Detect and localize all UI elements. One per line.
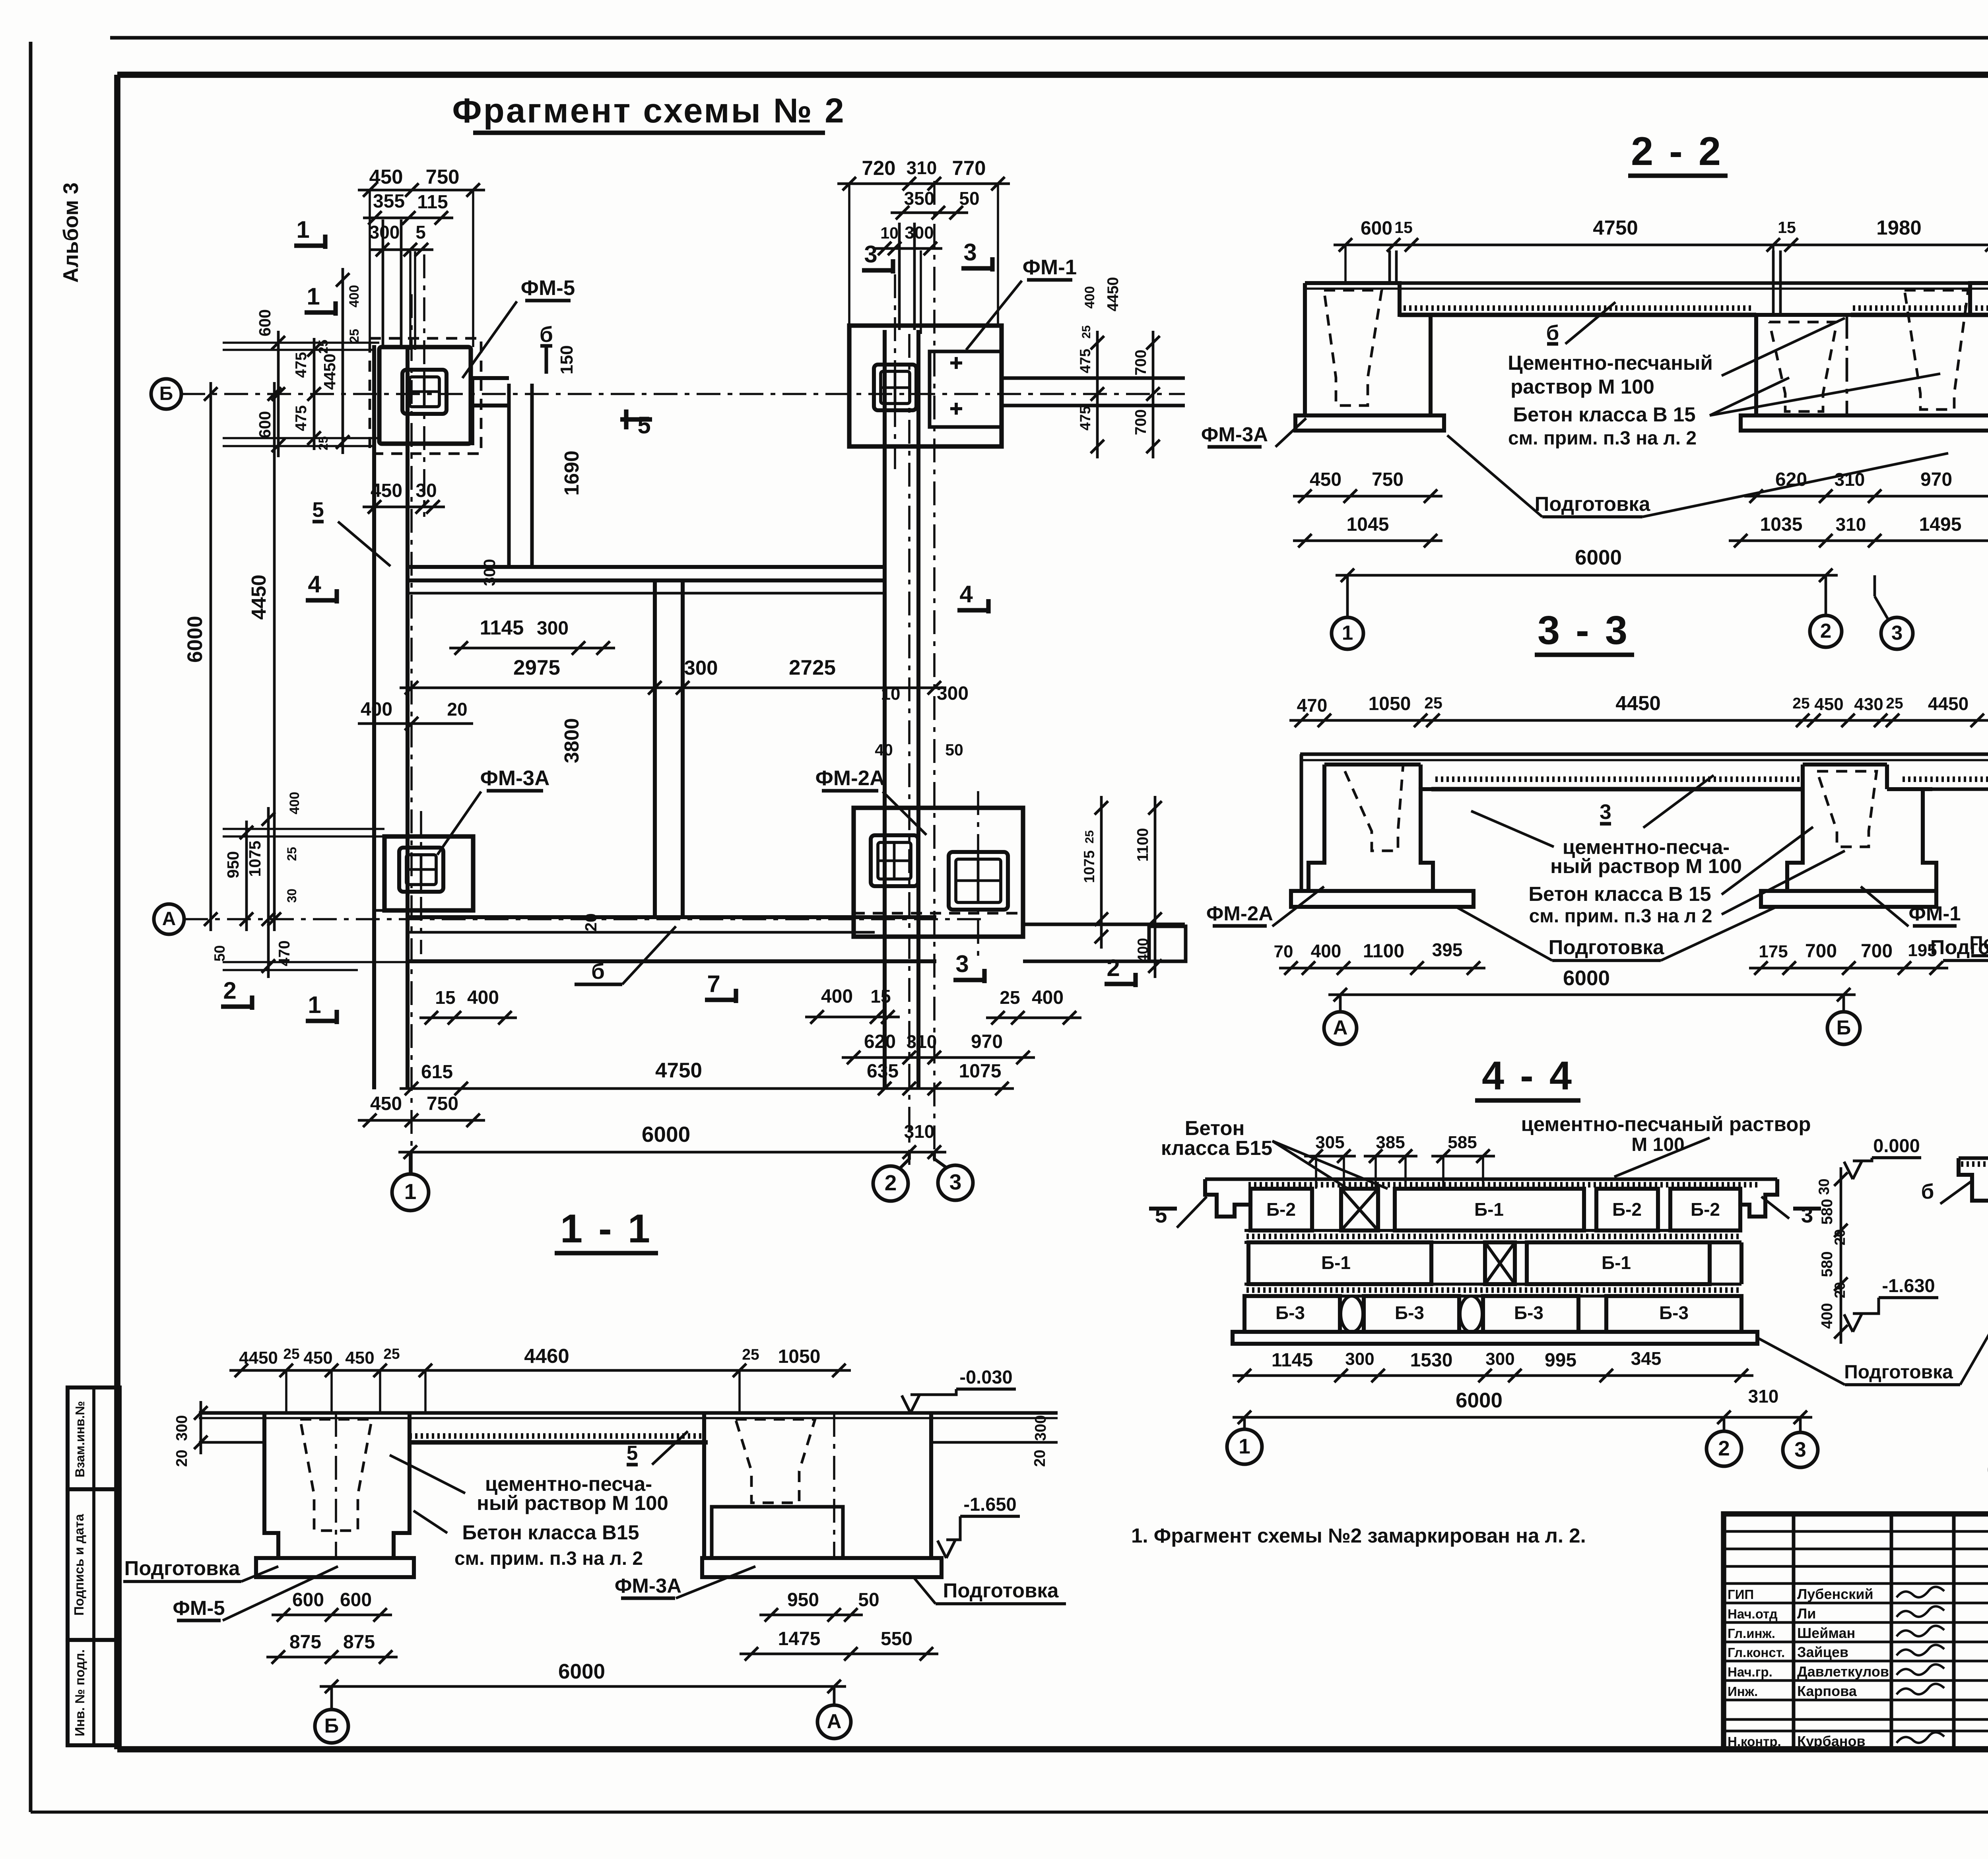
svg-text:400: 400 [467, 987, 499, 1008]
svg-text:Инж.: Инж. [1728, 1684, 1758, 1699]
svg-text:3: 3 [1801, 1203, 1813, 1227]
album label Albom 3 [59, 182, 83, 283]
svg-text:4750: 4750 [1593, 216, 1638, 239]
svg-text:70: 70 [1274, 942, 1293, 961]
svg-text:300: 300 [173, 1415, 190, 1441]
svg-text:1475: 1475 [778, 1628, 821, 1649]
plan: axis 2 vertical [908, 334, 911, 1165]
plan: foundation centerlines [421, 254, 978, 962]
svg-text:4450: 4450 [247, 574, 270, 619]
svg-text:300: 300 [1032, 1415, 1049, 1441]
2-2 axis circles 1 2 3 [1332, 575, 1913, 649]
svg-text:Б-3: Б-3 [1659, 1302, 1689, 1323]
plan: label FM-3A [437, 766, 549, 855]
svg-text:Подготовка: Подготовка [943, 1579, 1059, 1602]
svg-text:475: 475 [1077, 349, 1093, 373]
svg-text:А: А [1333, 1016, 1348, 1039]
svg-text:750: 750 [1372, 469, 1404, 490]
svg-text:Подготовка: Подготовка [1535, 493, 1650, 515]
4-4 axis circles 1 2 3 [1227, 1417, 1818, 1467]
svg-text:1050: 1050 [778, 1346, 821, 1367]
3-3 dims bottom right [1749, 941, 1948, 975]
svg-text:Б: Б [159, 383, 173, 404]
1-1 floor lines [199, 1370, 1058, 1442]
svg-text:4 - 4: 4 - 4 [1482, 1054, 1574, 1098]
svg-text:700: 700 [1132, 409, 1149, 435]
2-2 left slab [1295, 415, 1444, 431]
plan flag 5 right [560, 409, 652, 496]
1-1 label 5 [627, 1431, 688, 1465]
3-3 label beton [1528, 827, 1845, 927]
svg-text:635: 635 [867, 1061, 899, 1082]
plan bottom dim 620/310/970 [842, 1031, 1035, 1064]
svg-text:Гл.инж.: Гл.инж. [1728, 1626, 1775, 1641]
plan: duct lines near FM-5 [473, 378, 532, 568]
svg-text:ГИП: ГИП [1728, 1587, 1754, 1602]
svg-text:1075: 1075 [1081, 850, 1097, 883]
plan: axis circle 3 [934, 1152, 973, 1200]
1-1 axis circle B [315, 1686, 348, 1743]
4-4 label beton left [1161, 1117, 1388, 1189]
svg-text:350: 350 [904, 188, 935, 209]
3-3 label 3 [1600, 775, 1714, 828]
plan: left extension lines B [223, 343, 379, 446]
svg-text:0.000: 0.000 [1873, 1135, 1920, 1156]
svg-text:Инв. № подл.: Инв. № подл. [72, 1649, 87, 1737]
svg-text:4450: 4450 [1928, 693, 1969, 714]
svg-text:3: 3 [949, 1170, 962, 1194]
svg-text:6000: 6000 [1456, 1389, 1503, 1412]
svg-text:3: 3 [963, 239, 977, 266]
svg-text:ный раствор М 100: ный раствор М 100 [477, 1492, 668, 1514]
plan label 5 beam [312, 498, 390, 566]
svg-text:15: 15 [1778, 218, 1796, 237]
svg-text:30: 30 [1816, 1178, 1832, 1195]
svg-text:305: 305 [1315, 1133, 1344, 1152]
svg-text:450: 450 [370, 1093, 402, 1114]
svg-text:5: 5 [637, 412, 650, 439]
2-2 label b [1546, 302, 1615, 345]
3-3 axis circles A B [1324, 995, 1860, 1044]
svg-text:3: 3 [864, 241, 877, 268]
3-3 dims bottom left [1274, 939, 1485, 975]
svg-text:1035: 1035 [1760, 514, 1803, 535]
svg-text:6000: 6000 [183, 616, 207, 663]
plan: label FM-1 [966, 256, 1077, 350]
svg-text:Подготовка: Подготовка [1844, 1362, 1953, 1383]
svg-text:1690: 1690 [560, 450, 583, 495]
svg-text:2: 2 [885, 1170, 897, 1195]
svg-text:см. прим. п.3 на л. 2: см. прим. п.3 на л. 2 [1508, 428, 1697, 449]
svg-text:4: 4 [959, 581, 973, 607]
svg-text:Б-2: Б-2 [1612, 1199, 1642, 1220]
svg-text:1: 1 [296, 216, 309, 243]
svg-text:2 - 2: 2 - 2 [1631, 129, 1723, 174]
svg-text:Гл.конст.: Гл.конст. [1728, 1645, 1785, 1660]
svg-text:А: А [827, 1710, 842, 1733]
svg-text:300: 300 [480, 559, 499, 586]
title block names [1728, 1586, 1889, 1749]
svg-text:25: 25 [742, 1346, 759, 1363]
svg-text:Бетон: Бетон [1185, 1117, 1245, 1139]
svg-text:А: А [162, 908, 176, 929]
svg-text:3: 3 [1600, 800, 1611, 824]
plan: right wall axis 2-3 [885, 330, 918, 1087]
section 4-4 title [1475, 1054, 1580, 1100]
2-2 dim 6000 [1336, 546, 1838, 582]
svg-text:Подготовка: Подготовка [1969, 933, 1988, 954]
plan dim 300/5 [369, 222, 433, 256]
plan left dim 4450 vertical [247, 382, 281, 931]
plan bottom dim 450/750 [358, 1093, 485, 1127]
4-4 flag 5 left [1149, 1197, 1207, 1228]
2-2 dim 450/750 [1293, 469, 1442, 503]
svg-text:400: 400 [1082, 286, 1097, 309]
svg-text:450: 450 [1310, 469, 1342, 490]
1-1 left slab [256, 1558, 414, 1577]
3-3 right slab [1761, 891, 1936, 907]
svg-text:раствор М 100: раствор М 100 [1510, 375, 1654, 398]
plan section flags 4 [306, 571, 988, 613]
svg-text:580: 580 [1819, 1199, 1836, 1224]
plan dim 400/20 mid [358, 699, 473, 730]
4-4 mortar band1 [1244, 1230, 1741, 1242]
svg-text:ФМ-5: ФМ-5 [173, 1597, 225, 1619]
plan: label FM-2A [815, 766, 926, 835]
1-1 label podgotovka right [914, 1578, 1066, 1604]
svg-text:3 - 3: 3 - 3 [1538, 608, 1630, 653]
3-3 left foundation [1301, 754, 1433, 891]
plan: column lines above FM-5 [383, 219, 415, 350]
svg-text:1050: 1050 [1369, 693, 1411, 714]
svg-text:ФМ-3А: ФМ-3А [615, 1574, 681, 1597]
svg-text:430: 430 [1854, 695, 1883, 714]
section 1-1 title [555, 1207, 658, 1253]
svg-text:1145: 1145 [480, 616, 524, 639]
plan bottom dim 6000/310 [398, 1121, 946, 1159]
svg-text:40: 40 [875, 741, 893, 759]
svg-text:б: б [591, 959, 605, 984]
svg-text:770: 770 [952, 157, 986, 179]
svg-text:1980: 1980 [1876, 216, 1921, 239]
plan: axis circle 1 [392, 1152, 429, 1211]
svg-text:1. Фрагмент схемы №2 замаркиро: 1. Фрагмент схемы №2 замаркирован на л. … [1131, 1524, 1586, 1547]
7-7 flag b left [1921, 1180, 1972, 1204]
svg-text:1075: 1075 [246, 840, 264, 877]
svg-text:4450: 4450 [320, 353, 339, 390]
1-1 right slab [702, 1558, 942, 1577]
svg-text:400: 400 [1819, 1303, 1836, 1329]
1-1 label podgotovka left [123, 1557, 278, 1582]
svg-text:ФМ-1: ФМ-1 [1908, 902, 1961, 925]
svg-text:30: 30 [285, 889, 299, 903]
svg-text:580: 580 [1819, 1251, 1836, 1277]
svg-text:1530: 1530 [1410, 1350, 1453, 1371]
plan: axis A horizontal [154, 904, 982, 934]
svg-text:150: 150 [557, 345, 577, 374]
svg-text:Б-3: Б-3 [1395, 1302, 1424, 1323]
svg-text:475: 475 [293, 405, 310, 431]
svg-text:25: 25 [283, 1346, 299, 1362]
svg-text:15: 15 [435, 987, 455, 1008]
sidebar box Podpis i data [68, 1489, 120, 1640]
svg-text:950: 950 [224, 851, 242, 878]
svg-text:1075: 1075 [959, 1061, 1002, 1082]
svg-text:20: 20 [582, 913, 600, 931]
svg-text:Цементно-песчаный: Цементно-песчаный [1508, 351, 1713, 374]
svg-text:1100: 1100 [1134, 828, 1151, 862]
3-3 top dims [1289, 692, 1988, 727]
svg-text:2975: 2975 [513, 656, 560, 679]
4-4 row2 blocks [1248, 1242, 1741, 1284]
2-2 floor line [1305, 283, 1988, 315]
section 3-3 title [1535, 608, 1634, 655]
plan: column lines above FM-1 [899, 223, 921, 334]
plan dim 450/750 top [358, 165, 485, 347]
plan dim 720/310/770 [837, 157, 1010, 326]
2-2 label beton [1508, 374, 1940, 449]
svg-text:50: 50 [858, 1589, 879, 1611]
3-3 label FM-1 [1861, 887, 1961, 926]
svg-text:Давлеткулов: Давлеткулов [1797, 1663, 1889, 1680]
plan: beam stub right of FM-1 [1002, 378, 1185, 406]
svg-text:6000: 6000 [642, 1122, 690, 1147]
svg-text:700: 700 [1861, 941, 1893, 962]
4-4 bottom dims [1233, 1348, 1753, 1382]
4-4 flag 3 right [1761, 1197, 1821, 1227]
svg-text:20: 20 [447, 699, 467, 720]
svg-text:475: 475 [293, 352, 310, 378]
svg-text:Б-1: Б-1 [1321, 1252, 1351, 1273]
svg-text:Б: Б [324, 1714, 339, 1737]
svg-text:615: 615 [421, 1061, 453, 1083]
svg-text:600: 600 [1361, 218, 1392, 239]
plan: foundation FM-1 [849, 326, 1002, 446]
1-1 label FM-5 [173, 1566, 338, 1620]
plan dim 450/30 bottom of FM-5 [363, 480, 445, 514]
svg-text:Б-2: Б-2 [1266, 1199, 1296, 1220]
svg-text:600: 600 [292, 1589, 324, 1611]
svg-text:Нач.гр.: Нач.гр. [1728, 1665, 1773, 1679]
sidebar box Inv N podl [68, 1640, 120, 1745]
svg-text:Лубенский: Лубенский [1797, 1586, 1873, 1602]
plan dim 355/115 [363, 191, 453, 225]
plan rotated 3800 [480, 559, 600, 931]
plan: axis B horizontal [151, 379, 1185, 409]
svg-text:класса Б15: класса Б15 [1161, 1137, 1272, 1159]
svg-text:25: 25 [1424, 694, 1442, 712]
4-4 bottom slab [1233, 1332, 1757, 1344]
svg-text:25: 25 [285, 847, 299, 861]
svg-text:4450: 4450 [1105, 277, 1122, 312]
svg-text:25: 25 [383, 1346, 400, 1362]
svg-text:6000: 6000 [1575, 546, 1622, 569]
svg-text:450: 450 [303, 1348, 332, 1368]
svg-text:1045: 1045 [1347, 514, 1389, 535]
svg-text:875: 875 [289, 1632, 321, 1653]
svg-text:300: 300 [684, 656, 718, 679]
2-2 dim 620/310/970 [1744, 469, 1988, 503]
plan: upper cross beam [408, 567, 885, 593]
4-4 label cement mortar right [1521, 1113, 1811, 1177]
svg-text:3: 3 [1891, 621, 1903, 644]
svg-text:310: 310 [1835, 469, 1865, 490]
1-1 dim 6000 [320, 1660, 846, 1693]
1-1 left small dims 20/300 [173, 1401, 208, 1467]
svg-text:1145: 1145 [1272, 1350, 1313, 1371]
svg-text:550: 550 [881, 1628, 912, 1649]
svg-text:1495: 1495 [1919, 514, 1962, 535]
svg-text:450: 450 [1814, 695, 1843, 714]
svg-text:7: 7 [707, 970, 720, 997]
svg-text:2: 2 [1718, 1437, 1730, 1460]
svg-text:Нач.отд: Нач.отд [1728, 1607, 1778, 1621]
svg-text:10: 10 [880, 224, 899, 242]
2-2 middle slab [1741, 415, 1988, 431]
svg-text:50: 50 [212, 945, 228, 961]
svg-text:2725: 2725 [789, 656, 836, 679]
svg-text:4750: 4750 [655, 1059, 702, 1082]
svg-text:700: 700 [1805, 941, 1837, 962]
plan bottom flags 2,1,b,7,3,2 [221, 926, 1136, 1024]
svg-text:ФМ-3А: ФМ-3А [480, 766, 550, 790]
sidebar box Vzam inv N [68, 1387, 120, 1489]
svg-text:300: 300 [937, 683, 969, 704]
svg-text:ФМ-2А: ФМ-2А [815, 766, 885, 790]
svg-text:175: 175 [1759, 942, 1788, 961]
plan: beam stub right of FM-2A [1023, 924, 1186, 961]
svg-text:310: 310 [907, 157, 937, 178]
1-1 top dims [229, 1345, 851, 1377]
svg-text:50: 50 [945, 741, 963, 759]
4-4 top small dims 305/385/585 [1304, 1133, 1495, 1189]
svg-text:25: 25 [1080, 325, 1093, 338]
svg-text:Курбанов: Курбанов [1797, 1733, 1866, 1749]
svg-text:310: 310 [1836, 514, 1866, 535]
plan flag b + 150 [540, 322, 577, 375]
section 2-2 title [1628, 129, 1728, 176]
svg-text:4460: 4460 [524, 1345, 569, 1367]
svg-text:5: 5 [415, 222, 426, 243]
svg-text:Б-3: Б-3 [1276, 1302, 1305, 1323]
svg-text:б: б [540, 322, 553, 347]
plan dim 350/50 [891, 188, 980, 219]
svg-text:950: 950 [787, 1589, 819, 1611]
svg-text:Подготовка: Подготовка [124, 1557, 240, 1580]
svg-text:400: 400 [347, 285, 362, 308]
1-1 axis circle A [817, 1686, 851, 1739]
svg-text:25: 25 [1886, 695, 1903, 712]
svg-text:620: 620 [1775, 469, 1807, 490]
svg-text:см. прим. п.3 на л. 2: см. прим. п.3 на л. 2 [454, 1548, 643, 1569]
plan dim 1145/300 [449, 616, 615, 655]
svg-text:400: 400 [1032, 987, 1064, 1008]
svg-text:5: 5 [627, 1442, 638, 1464]
svg-text:310: 310 [907, 1031, 937, 1052]
1-1 label beton [414, 1511, 643, 1569]
3-3 label cement mortar [1471, 811, 1742, 877]
2-2 label podgotovka [1447, 435, 1948, 517]
svg-text:2: 2 [223, 977, 236, 1004]
svg-text:400: 400 [1311, 941, 1342, 961]
svg-text:б: б [1546, 321, 1559, 345]
svg-text:Б-3: Б-3 [1514, 1302, 1543, 1323]
svg-text:Б-2: Б-2 [1691, 1199, 1720, 1220]
svg-text:475: 475 [1077, 406, 1093, 431]
svg-text:15: 15 [870, 986, 891, 1007]
1-1 dim 600/600 [272, 1589, 392, 1622]
svg-text:395: 395 [1432, 939, 1463, 960]
svg-text:2: 2 [1820, 619, 1831, 642]
plan: lower beam [406, 917, 936, 961]
3-3 left slab [1291, 891, 1474, 907]
svg-text:Подготовка: Подготовка [1549, 936, 1664, 959]
svg-text:-0.030: -0.030 [959, 1366, 1012, 1387]
svg-text:6000: 6000 [1563, 966, 1610, 990]
svg-text:Фрагмент схемы № 2: Фрагмент схемы № 2 [452, 91, 845, 130]
svg-text:3: 3 [1794, 1438, 1806, 1461]
svg-text:355: 355 [373, 191, 405, 212]
svg-text:-1.630: -1.630 [1882, 1275, 1935, 1296]
plan dim 2975/300/2725 [400, 656, 946, 695]
svg-text:300: 300 [1345, 1349, 1374, 1369]
svg-text:6000: 6000 [558, 1660, 605, 1683]
plan section flags 3 top [862, 239, 992, 274]
svg-text:Б: Б [1837, 1016, 1851, 1039]
1-1 left foundation pedestal [264, 1413, 410, 1558]
svg-text:600: 600 [256, 411, 274, 438]
1-1 right foundation pedestal [704, 1413, 931, 1558]
1-1 dim 875/875 [266, 1632, 398, 1664]
svg-text:4450: 4450 [239, 1348, 278, 1368]
plan left dim chain B [256, 268, 362, 457]
svg-text:875: 875 [343, 1632, 375, 1653]
svg-text:50: 50 [959, 188, 979, 209]
svg-text:970: 970 [971, 1031, 1003, 1052]
svg-text:3: 3 [955, 951, 969, 977]
4-4 row1 blocks [1250, 1189, 1740, 1230]
svg-text:ФМ-1: ФМ-1 [1023, 256, 1077, 279]
svg-text:585: 585 [1448, 1133, 1477, 1152]
svg-text:3800: 3800 [560, 718, 583, 763]
svg-text:600: 600 [340, 1589, 372, 1611]
7-7 left cap [1959, 1158, 1988, 1201]
2-2 label FM-3A left [1201, 418, 1306, 447]
2-2 dim 1045 [1293, 514, 1442, 547]
main title Fragment shemy N2 [452, 91, 845, 133]
plan dim 10/300 [873, 223, 942, 255]
svg-text:300: 300 [1485, 1349, 1514, 1369]
title block signatures [1897, 1587, 1944, 1743]
3-3 label podgotovka [1455, 906, 1777, 961]
svg-text:620: 620 [864, 1031, 896, 1052]
svg-text:Шейман: Шейман [1797, 1625, 1855, 1641]
plan bottom dim 615/4750/635/1075 [400, 1059, 1014, 1095]
svg-text:30: 30 [415, 480, 437, 501]
svg-text:25: 25 [1792, 695, 1809, 712]
title block left rows [1724, 1531, 1988, 1731]
3-3 right foundation [1787, 765, 1936, 891]
1-1 level -1.650 [938, 1494, 1020, 1558]
svg-text:310: 310 [904, 1121, 935, 1142]
svg-text:1: 1 [1342, 621, 1353, 644]
1-1 dim 950/50 [759, 1589, 879, 1622]
svg-text:25: 25 [1083, 830, 1096, 843]
4-4 mortar band2 [1244, 1284, 1741, 1296]
plan dim 10/300 right mid [875, 683, 969, 759]
svg-text:115: 115 [417, 192, 448, 213]
plan: middle vertical beam [655, 580, 683, 918]
